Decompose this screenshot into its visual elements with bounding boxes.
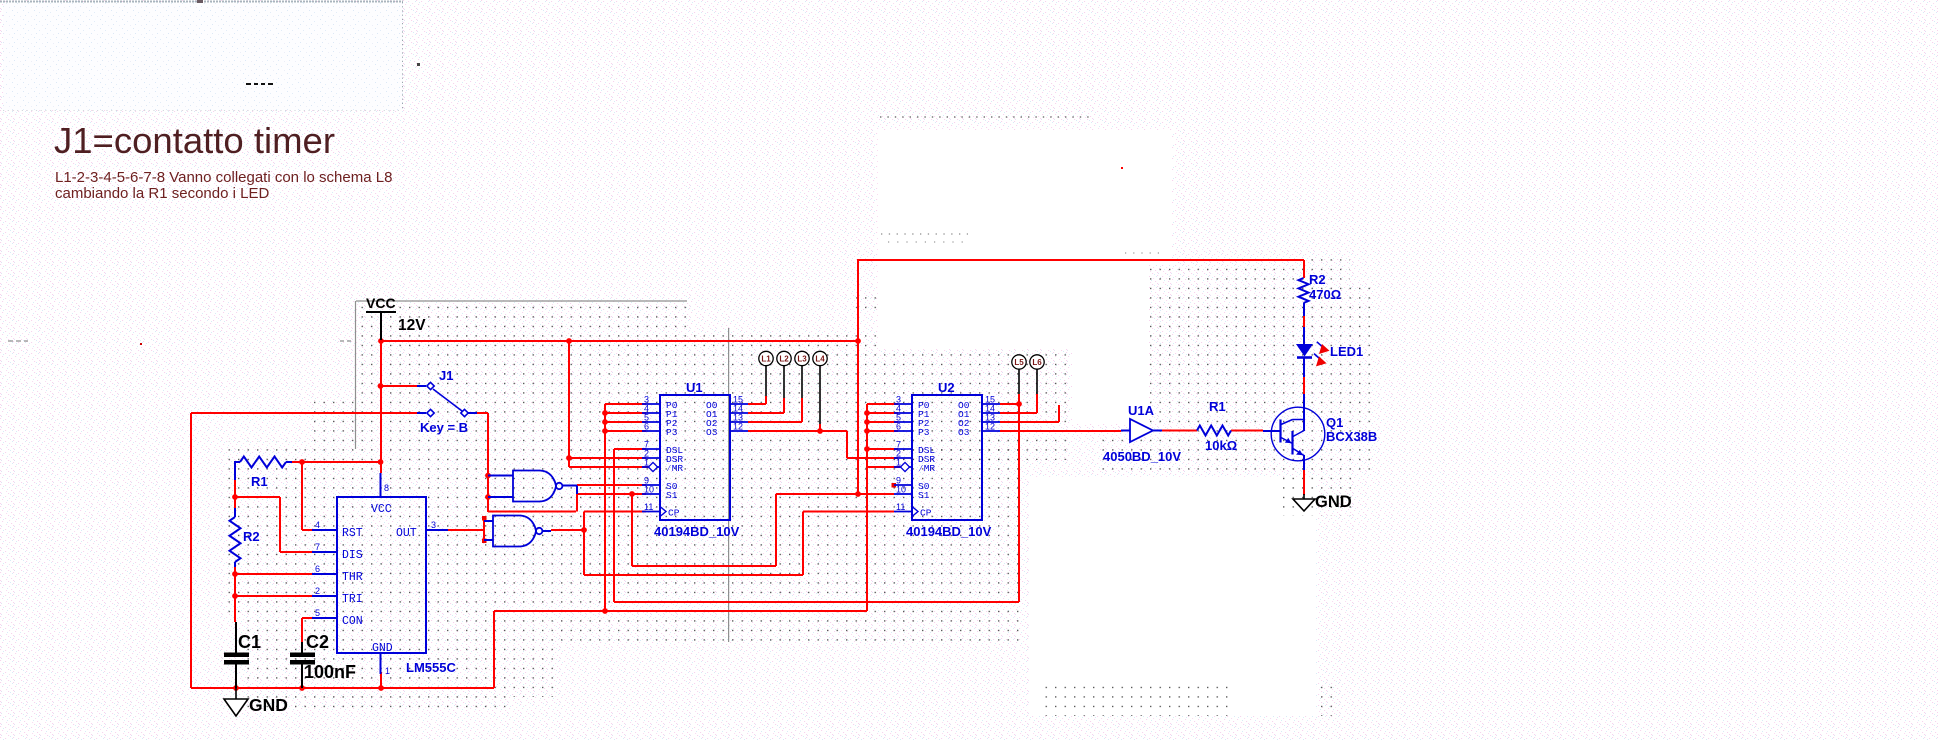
wire RST drop: [301, 462, 303, 530]
wire O0 U2 down link: [1018, 404, 1020, 602]
wire S0 U1 wire: [577, 484, 646, 486]
svg-text:CP: CP: [668, 508, 680, 519]
wire RST wire: [302, 529, 312, 531]
svg-text:OUT: OUT: [396, 527, 417, 540]
wire CP cross run: [584, 574, 803, 576]
wire DSL U1 wire: [614, 448, 646, 450]
svg-text:1: 1: [896, 458, 901, 468]
svg-text:L6: L6: [1032, 358, 1042, 367]
svg-text:R2: R2: [1309, 272, 1326, 287]
wire NAND2 out run: [551, 529, 584, 531]
connector L3: [795, 351, 809, 365]
wire O2 U2: [1000, 421, 1059, 423]
wire R2-LED red seg: [1303, 316, 1305, 327]
wire L3 lead: [801, 366, 803, 399]
wire O0 U2: [1000, 403, 1019, 405]
wire DSR U1 wire: [569, 457, 646, 459]
svg-text:O3: O3: [706, 427, 718, 438]
svg-text:40194BD_10V: 40194BD_10V: [906, 524, 992, 539]
wire left rail down: [190, 413, 192, 688]
wire CON to C2: [301, 618, 303, 642]
svg-text:L2: L2: [779, 355, 789, 364]
wire J1 top feed: [381, 385, 417, 387]
open pin markers: [482, 483, 896, 543]
svg-text:THR: THR: [342, 571, 363, 584]
svg-text:S1: S1: [666, 490, 678, 501]
dash marks: [246, 83, 273, 85]
svg-text:U1A: U1A: [1128, 403, 1155, 418]
connector L1: [759, 351, 773, 365]
wire VCC drop to J1/555 pin8: [380, 341, 382, 473]
capacitor C1: [224, 622, 249, 688]
dotted border fragment: [880, 117, 1160, 253]
wire S1 U2 riser: [775, 494, 777, 566]
wire node to DIS jog: [235, 496, 280, 498]
transistor Q1 BCX38B: [1263, 394, 1325, 470]
svg-text:P3: P3: [918, 427, 930, 438]
svg-text:R1: R1: [1209, 399, 1226, 414]
wire R1 right to VCC node: [291, 461, 381, 463]
wire O3 U2 to buffer: [1000, 430, 1121, 432]
svg-text:VCC: VCC: [371, 503, 392, 516]
svg-text:⁄MR: ⁄MR: [666, 463, 683, 474]
svg-text:3: 3: [431, 520, 436, 530]
wire J1 out: [477, 412, 488, 414]
wire GND bottom rail: [191, 687, 494, 689]
svg-text:1: 1: [385, 666, 390, 676]
wire MR U2 wire: [867, 466, 900, 468]
wire NAND1 out drop: [576, 493, 578, 512]
svg-text:TRI: TRI: [342, 593, 363, 606]
switch J1: [417, 382, 477, 416]
wire P3 U1: [605, 430, 646, 432]
svg-text:GND: GND: [249, 695, 288, 715]
white zone mid-right strip: [1072, 265, 1148, 424]
wire MR U1 wire: [569, 466, 648, 468]
wire VCC drop mid: [568, 341, 570, 467]
svg-text:11: 11: [896, 502, 905, 512]
wire LED-Q1 red seg: [1303, 377, 1305, 395]
svg-text:5: 5: [315, 608, 320, 618]
svg-text:1: 1: [644, 458, 649, 468]
svg-text:Key = B: Key = B: [420, 420, 468, 435]
svg-text:J1=contatto timer: J1=contatto timer: [54, 120, 335, 161]
wire S1 cross run: [632, 565, 776, 567]
wire long GND run: [494, 610, 867, 612]
svg-text:8: 8: [384, 483, 389, 493]
page frame top-left: [0, 0, 420, 111]
svg-text:10: 10: [644, 485, 654, 495]
svg-text:S1: S1: [918, 490, 930, 501]
wire L4 lead: [819, 366, 821, 425]
wire R1 to Q1 base: [1231, 430, 1263, 432]
wire CON wire: [302, 617, 312, 619]
IC LM555C: [312, 473, 456, 676]
wire CP net vertical: [583, 512, 585, 576]
wire CP U2 riser: [802, 512, 804, 576]
wire R1 left lead down: [234, 478, 236, 497]
wire L2 lead: [783, 366, 785, 399]
wire THR wire: [235, 573, 312, 575]
svg-text:P3: P3: [666, 427, 678, 438]
wire 555 pin1 tail: [380, 672, 382, 688]
LED LED1: [1296, 342, 1363, 377]
wire S1 link down: [631, 494, 633, 566]
resistor R2 (left): [230, 508, 241, 567]
wire P1 U1: [605, 412, 646, 414]
NAND gate U5A: [493, 516, 542, 547]
svg-text:C1: C1: [238, 632, 261, 652]
svg-text:⁄MR: ⁄MR: [918, 463, 935, 474]
wire CP U2 wire: [803, 511, 894, 513]
wire P0 U1: [605, 403, 646, 405]
svg-text:LED1: LED1: [1330, 344, 1363, 359]
wire VCC 12V rail: [381, 340, 858, 342]
wire P1 U2: [867, 412, 898, 414]
grid dot sheet: [228, 258, 1376, 716]
svg-text:U2: U2: [938, 380, 955, 395]
white zone mid: [878, 265, 1072, 349]
VCC power symbol: [366, 312, 396, 340]
svg-text:LM555C: LM555C: [406, 660, 456, 675]
svg-text:12: 12: [733, 422, 743, 432]
svg-text:L1: L1: [761, 355, 771, 364]
capacitor C2: [290, 642, 315, 688]
wire S1 U2 wire: [776, 493, 894, 495]
wire P0 U2: [867, 403, 898, 405]
wire TRI wire: [235, 595, 312, 597]
wire DIS drop: [279, 497, 281, 552]
svg-text:10: 10: [896, 485, 906, 495]
wire blue jog S1: [576, 486, 578, 495]
resistor R2 470: [1299, 278, 1309, 344]
svg-text:2: 2: [315, 586, 320, 596]
resistor R1 10k: [1197, 426, 1231, 436]
wire R2 top lead red: [1303, 260, 1305, 278]
connector L5: [1012, 355, 1026, 369]
wire NAND1 feedback run: [488, 511, 576, 513]
wire top rail to R2: [857, 259, 1304, 261]
wire O3 to U2 DSR drop: [846, 431, 848, 458]
wire DSL U1 drop: [613, 449, 615, 602]
svg-text:CP: CP: [920, 508, 932, 519]
svg-text:R2: R2: [243, 529, 260, 544]
ground left: [224, 688, 248, 716]
svg-text:GND: GND: [372, 642, 393, 655]
svg-text:4: 4: [315, 520, 320, 530]
svg-text:L3: L3: [797, 355, 807, 364]
svg-text:L5: L5: [1014, 358, 1024, 367]
ground right: [1293, 494, 1315, 511]
svg-text:10kΩ: 10kΩ: [1205, 438, 1237, 453]
svg-text:11: 11: [644, 502, 653, 512]
wire P bus U1: [604, 404, 606, 611]
wire Q1 emitter red: [1303, 470, 1305, 495]
page boundary gray lines: [8, 301, 729, 642]
wire J1 pole to left rail: [191, 412, 417, 414]
wire DIS wire: [280, 551, 312, 553]
junction dots: [232, 338, 1022, 691]
svg-text:470Ω: 470Ω: [1309, 287, 1341, 302]
svg-text:J1: J1: [439, 368, 453, 383]
svg-text:cambiando la R1 secondo i LED: cambiando la R1 secondo i LED: [55, 185, 269, 202]
speck: [1121, 167, 1123, 169]
wire O1 U1: [748, 412, 784, 414]
connector L2: [777, 351, 791, 365]
wire 555 OUT wire: [448, 529, 484, 531]
wire O2 U1: [748, 421, 802, 423]
wire shift link run: [614, 601, 1019, 603]
wire R2 top lead: [234, 497, 236, 508]
wire DSL U2 wire: [867, 448, 898, 450]
wire O3 U1: [748, 430, 847, 432]
IC U1 40194BD_10V: [642, 380, 748, 539]
svg-text:GND: GND: [1315, 493, 1352, 511]
wire DSR U2 wire: [847, 457, 898, 459]
wire P bus U2: [866, 404, 868, 611]
svg-text:6: 6: [644, 422, 649, 432]
svg-text:4050BD_10V: 4050BD_10V: [1103, 449, 1181, 464]
white zone lower-right: [1029, 477, 1316, 716]
IC U2 40194BD_10V: [894, 380, 1000, 539]
connector L6: [1030, 355, 1044, 369]
svg-text:DIS: DIS: [342, 549, 363, 562]
white zone mid-top: [878, 130, 1172, 265]
wire S1 U1 wire: [577, 493, 646, 495]
svg-text:BCX38B: BCX38B: [1326, 429, 1377, 444]
NAND gate U4A: [513, 471, 562, 502]
svg-text:VCC: VCC: [366, 295, 396, 311]
wire bottom rail up right: [493, 611, 495, 688]
wire L1 lead: [765, 366, 767, 397]
wire O0 U1: [748, 403, 766, 405]
svg-text:Q1: Q1: [1326, 415, 1343, 430]
connector L4: [813, 351, 827, 365]
wire O1 U2: [1000, 412, 1037, 414]
wire P2 U2: [867, 421, 898, 423]
wire L5 lead: [1018, 369, 1020, 394]
wire O2 stub up: [1058, 405, 1060, 422]
wire VCC branch right: [857, 260, 859, 494]
svg-text:L4: L4: [815, 355, 825, 364]
svg-text:L1-2-3-4-5-6-7-8 Vanno collega: L1-2-3-4-5-6-7-8 Vanno collegati con lo …: [55, 169, 392, 186]
svg-text:U1: U1: [686, 380, 703, 395]
wire R2 bottom to C1: [234, 565, 236, 622]
svg-text:R1: R1: [251, 474, 268, 489]
svg-text:6: 6: [315, 564, 320, 574]
svg-text:40194BD_10V: 40194BD_10V: [654, 524, 740, 539]
svg-text:O3: O3: [958, 427, 970, 438]
svg-text:7: 7: [315, 542, 320, 552]
wire L6 lead: [1036, 369, 1038, 394]
svg-text:CON: CON: [342, 615, 363, 628]
svg-text:100nF: 100nF: [304, 662, 356, 682]
svg-text:12: 12: [985, 422, 995, 432]
resistor R1 (left): [235, 457, 292, 481]
wire J1 out down to NAND1: [487, 413, 489, 512]
svg-text:12V: 12V: [398, 317, 426, 334]
svg-text:C2: C2: [306, 632, 329, 652]
wire buffer out: [1162, 430, 1197, 432]
buffer U1A 4050BD_10V: [1103, 403, 1181, 464]
wire P3 U2: [867, 430, 898, 432]
svg-text:RST: RST: [342, 527, 363, 540]
wire P2 U1: [605, 421, 646, 423]
svg-text:6: 6: [896, 422, 901, 432]
wire CP U1 wire: [584, 511, 646, 513]
